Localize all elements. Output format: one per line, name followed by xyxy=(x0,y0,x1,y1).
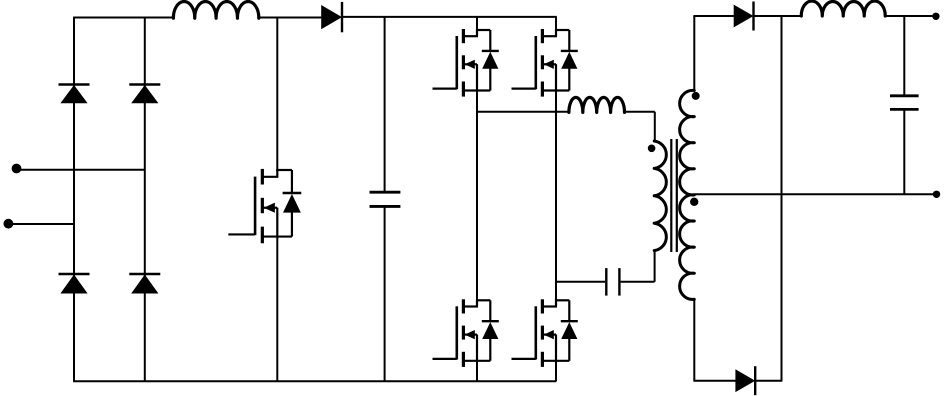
wire (line input to bridge right leg) xyxy=(20,169,145,171)
wire (left inverter leg upper) xyxy=(476,18,478,37)
wire (D7 to rectifier node) xyxy=(756,380,782,382)
AC input terminal (neutral) xyxy=(3,219,13,229)
wire (DC link cap top lead) xyxy=(384,18,386,193)
wire (filter inductor to output+) xyxy=(885,15,936,17)
inductor L1 (boost) xyxy=(173,2,258,19)
wire (output cap top lead) xyxy=(903,16,905,96)
wire (resonant inductor to primary top) xyxy=(625,112,655,142)
capacitor C2 (resonant) xyxy=(556,268,655,296)
wire (boost switch drain) xyxy=(276,18,278,172)
wire (boost gate stub) xyxy=(229,233,230,235)
wire (secondary top lead) xyxy=(693,16,695,92)
wire (boost switch source to bottom rail) xyxy=(276,237,278,382)
inductor L3 (output filter) xyxy=(801,1,885,16)
wire (bridge right leg) xyxy=(144,18,146,382)
diode D3 (bridge lower-left) xyxy=(59,274,90,294)
wire (right inverter leg middle) xyxy=(555,64,557,306)
wire (right inverter leg upper) xyxy=(555,17,557,36)
wire (bottom rail) xyxy=(73,380,556,382)
diode D6 (rectifier top) xyxy=(734,2,754,31)
wire (DC link cap bottom lead) xyxy=(384,206,386,381)
MOSFET Q1 (boost switch) xyxy=(228,169,301,243)
polarity dot (secondary top) xyxy=(692,92,700,100)
MOSFET Q4 (inverter low-side left) xyxy=(433,299,499,367)
polarity dot (primary) xyxy=(648,145,656,153)
diode D1 (bridge upper-left) xyxy=(59,85,90,104)
polarity dot (secondary bottom half) xyxy=(690,198,698,206)
inductor L2 (resonant) xyxy=(569,97,625,112)
output terminal (-) xyxy=(933,191,940,198)
MOSFET Q3 (inverter high-side right) xyxy=(512,29,578,97)
diode D4 (bridge lower-right) xyxy=(129,274,160,294)
wire (rectifier node vertical) xyxy=(781,16,783,381)
wire (primary bottom lead) xyxy=(654,250,656,282)
wire (secondary bottom lead) xyxy=(693,299,695,381)
MOSFET Q2 (inverter high-side left) xyxy=(433,29,499,97)
wire (neutral input to bridge left leg) xyxy=(12,223,74,225)
wire (output cap bottom lead) xyxy=(903,109,905,194)
diode D5 (boost) xyxy=(321,2,342,32)
wire (top rail, boost diode to Q2 drain) xyxy=(343,16,557,18)
diode D2 (bridge upper-right) xyxy=(129,85,160,104)
wire (left inverter leg lower) xyxy=(476,335,478,382)
capacitor C3 (output filter) xyxy=(890,96,919,110)
wire (right inverter leg lower) xyxy=(555,335,557,382)
transformer T1 primary winding xyxy=(654,141,666,251)
wire (left inverter leg middle) xyxy=(476,64,478,306)
wire (D6 to filter inductor) xyxy=(755,15,802,17)
AC input terminal (line) xyxy=(12,164,22,174)
transformer T1 secondary winding xyxy=(680,90,695,299)
capacitor C1 (DC link) xyxy=(370,192,401,206)
wire (left leg midpoint to resonant inductor) xyxy=(477,111,569,113)
output terminal (+) xyxy=(932,13,939,20)
wire (top rail, L1 to boost diode) xyxy=(259,17,322,19)
transformer T1 core xyxy=(671,139,677,252)
wire (center tap to output-) xyxy=(694,193,936,195)
wire (bridge left leg) xyxy=(73,18,75,382)
wire (secondary bottom to D7) xyxy=(693,380,735,382)
wire (output top rail to D6) xyxy=(693,15,734,17)
diode D7 (rectifier bottom) xyxy=(735,366,755,395)
wire (top rail, bridge to boost inductor) xyxy=(73,17,173,19)
MOSFET Q5 (inverter low-side right) xyxy=(512,299,578,367)
